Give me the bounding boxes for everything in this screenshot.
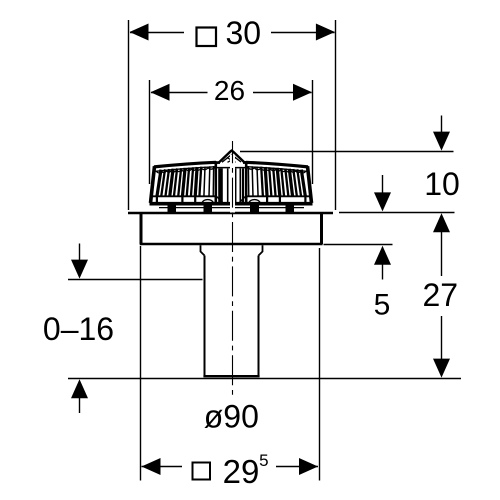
foot 3 <box>250 206 259 214</box>
hub white casing slot <box>230 155 235 213</box>
arch opening left of hub <box>202 200 214 203</box>
bottom reference line <box>68 378 461 380</box>
roof plate top line <box>128 212 333 215</box>
svg-text:5: 5 <box>259 451 268 470</box>
grate inner top rail right <box>247 167 307 172</box>
centerline <box>232 141 234 396</box>
hub brace right <box>239 197 245 203</box>
dim line at plate level right <box>339 212 455 214</box>
svg-text:ø90: ø90 <box>204 399 259 435</box>
collar right <box>259 245 263 255</box>
dimension 29.5 line <box>142 466 319 468</box>
dim 5 bottom arrow <box>374 246 391 265</box>
flange body right edge <box>320 213 323 244</box>
dimension 26 line <box>151 92 312 94</box>
arrow 26 right <box>293 84 312 101</box>
svg-text:10: 10 <box>424 166 460 202</box>
dim 5 top arrow <box>382 175 384 194</box>
stub 5 <box>279 197 281 203</box>
pipe right wall <box>258 256 260 377</box>
square symbol 30 <box>197 28 217 47</box>
thin rib near hub left <box>204 167 205 197</box>
dim line 5 bottom ref <box>324 244 393 246</box>
arrow 26 left <box>151 84 170 101</box>
grate left edge <box>151 166 155 203</box>
hub right side <box>245 161 248 203</box>
stub 1 <box>156 197 158 203</box>
hub peak cross right <box>228 158 237 163</box>
arrow 29.5 left <box>142 458 161 475</box>
svg-text:29: 29 <box>223 453 260 490</box>
hub peak cross left <box>227 158 236 163</box>
grate top edge left <box>154 162 216 167</box>
foot 1 <box>168 206 177 214</box>
svg-text:26: 26 <box>214 75 245 106</box>
grate inner top rail left <box>156 167 216 172</box>
grate ribs left wing <box>157 167 201 197</box>
stub 2 <box>181 197 183 203</box>
stub 6 <box>304 197 306 203</box>
svg-text:0–16: 0–16 <box>43 311 114 347</box>
square symbol 29.5 <box>193 463 211 480</box>
dimension 30 line <box>130 32 335 34</box>
grate ribs right wing <box>261 167 305 197</box>
arrow 30 left <box>130 24 149 41</box>
svg-text:5: 5 <box>374 289 391 322</box>
stub 4 <box>266 197 268 203</box>
extension line 26 right <box>312 80 314 184</box>
foot 4 <box>286 206 295 214</box>
extension line 29.5 right <box>319 248 321 481</box>
extension line 30 left <box>128 20 130 210</box>
flange body left edge <box>140 213 143 244</box>
collar left <box>201 245 205 255</box>
hub base segment right <box>243 161 249 164</box>
grate white background <box>151 151 312 204</box>
dim 27 top arrow (up to plate line) <box>433 213 450 232</box>
arrow 30 right <box>316 24 335 41</box>
hub base segment left <box>214 161 220 164</box>
grate scallop band left <box>157 167 215 173</box>
hub brace left <box>217 197 223 203</box>
hub peak outline <box>216 151 246 163</box>
hub left side <box>215 161 218 203</box>
grate right edge <box>308 166 312 203</box>
thin rib near hub right <box>257 167 258 197</box>
arrow 29.5 right <box>299 458 318 475</box>
hub rail <box>216 167 246 169</box>
grate bottom edge <box>150 202 313 206</box>
svg-text:30: 30 <box>226 15 262 51</box>
extension line 26 left <box>149 80 151 184</box>
pipe left wall <box>204 256 206 377</box>
dim 0-16 top arrow <box>79 244 81 262</box>
dim 27 bottom arrow <box>441 316 443 360</box>
foot 2 <box>204 206 213 214</box>
arch opening right of hub <box>249 200 261 203</box>
stub 3 <box>194 197 196 203</box>
flange body bottom <box>140 243 323 245</box>
dim 10 top arrow <box>441 116 443 135</box>
grate bottom rail left <box>152 195 216 197</box>
extension line 29.5 left <box>140 246 142 481</box>
hub interior bars <box>221 169 244 203</box>
dim line 0-16 top ref <box>68 279 203 281</box>
grate assembly <box>150 151 313 214</box>
hub peak inner ridge <box>222 155 241 163</box>
grate top edge right <box>246 162 308 167</box>
grate base ring line <box>159 207 304 209</box>
dim line 10 top (from peak to right) <box>240 151 454 153</box>
grate scallop band right <box>247 167 305 173</box>
grate bottom rail right <box>246 195 310 197</box>
dim 0-16 bottom arrow <box>71 379 88 398</box>
extension line 30 right <box>335 20 337 210</box>
svg-text:27: 27 <box>423 277 459 313</box>
pipe bottom edge <box>203 375 259 377</box>
